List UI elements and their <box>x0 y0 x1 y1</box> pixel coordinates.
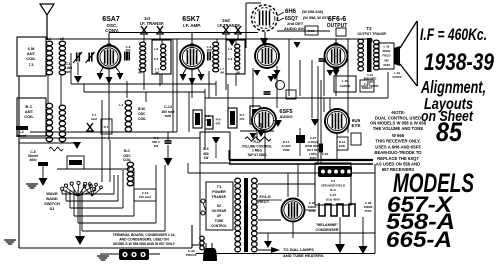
svg-text:TAP AT 884K: TAP AT 884K <box>247 153 267 157</box>
svg-text:CONTROL: CONTROL <box>211 224 227 228</box>
svg-text:460: 460 <box>125 48 130 52</box>
svg-text:6M: 6M <box>236 71 240 75</box>
svg-text:CHOKE: CHOKE <box>340 84 351 88</box>
svg-text:AUDIO: AUDIO <box>280 114 293 119</box>
svg-text:85: 85 <box>436 117 463 147</box>
svg-text:910 mmf: 910 mmf <box>139 195 151 199</box>
svg-text:460v: 460v <box>29 158 36 162</box>
svg-text:L-9: L-9 <box>119 103 124 107</box>
svg-text:SPKR: SPKR <box>383 49 391 53</box>
svg-text:1938-39: 1938-39 <box>424 49 495 76</box>
svg-text:S1: S1 <box>50 206 56 211</box>
svg-text:8MM MFD: 8MM MFD <box>364 77 377 81</box>
svg-text:L-7: L-7 <box>155 67 159 71</box>
svg-text:CONDENSER: CONDENSER <box>316 228 339 232</box>
svg-text:I.F = 460Kc.: I.F = 460Kc. <box>420 25 487 44</box>
svg-text:S2: S2 <box>217 204 221 208</box>
svg-text:250V: 250V <box>364 209 371 213</box>
svg-text:B.W.: B.W. <box>138 107 146 111</box>
svg-text:657 RECEIVERS: 657 RECEIVERS <box>382 167 415 172</box>
svg-text:460: 460 <box>206 48 211 52</box>
svg-text:OF: OF <box>217 214 221 218</box>
svg-text:T1: T1 <box>217 184 222 189</box>
svg-text:COIL: COIL <box>138 117 147 121</box>
svg-text:C-9: C-9 <box>154 57 159 61</box>
svg-text:6M: 6M <box>220 71 224 75</box>
svg-text:OUTPUT TRANSF.: OUTPUT TRANSF. <box>357 32 386 36</box>
svg-text:C-23: C-23 <box>308 29 315 33</box>
svg-text:-NOTE-: -NOTE- <box>391 110 406 115</box>
svg-text:USES A 6H6 AND 6SF5: USES A 6H6 AND 6SF5 <box>375 144 421 149</box>
svg-text:2400: 2400 <box>339 144 346 148</box>
svg-text:ON REAR: ON REAR <box>212 209 227 213</box>
svg-text:AND CONDENSERS, USED ON: AND CONDENSERS, USED ON <box>119 238 169 242</box>
svg-text:mmf: mmf <box>91 117 97 121</box>
svg-text:COIL: COIL <box>24 114 34 119</box>
svg-text:TRANSF.: TRANSF. <box>211 195 226 199</box>
svg-text:1W: 1W <box>204 156 209 160</box>
svg-text:Alignment,: Alignment, <box>420 77 486 97</box>
svg-text:L-7: L-7 <box>138 67 142 71</box>
svg-text:C-27: C-27 <box>330 193 337 197</box>
svg-text:TONE: TONE <box>215 219 224 223</box>
svg-text:47K: 47K <box>239 117 244 121</box>
svg-text:OSC: OSC <box>138 112 146 116</box>
svg-text:I.F. TRANSF.: I.F. TRANSF. <box>140 21 164 26</box>
svg-text:POWER: POWER <box>212 190 226 194</box>
svg-text:AS USED ON 558 AND: AS USED ON 558 AND <box>376 162 420 167</box>
svg-text:mmf: mmf <box>165 114 173 118</box>
svg-text:1/2W: 1/2W <box>282 148 289 152</box>
svg-text:OHM: OHM <box>383 63 390 67</box>
svg-text:6H6: 6H6 <box>285 9 297 15</box>
svg-text:L-8: L-8 <box>154 47 159 51</box>
svg-text:I.F. AMP.: I.F. AMP. <box>183 23 201 28</box>
svg-text:L-16: L-16 <box>342 79 349 83</box>
svg-text:C-18: C-18 <box>367 73 373 77</box>
svg-text:SPEAKER FIELD: SPEAKER FIELD <box>321 184 346 188</box>
svg-text:I.F.TRANSF.: I.F.TRANSF. <box>217 23 240 28</box>
svg-text:6SK7: 6SK7 <box>182 16 200 23</box>
svg-text:30mmf: 30mmf <box>16 134 27 138</box>
svg-text:C-9: C-9 <box>228 57 233 61</box>
svg-text:5-6: 5-6 <box>331 179 336 183</box>
svg-text:TO DIAL LAMPS: TO DIAL LAMPS <box>283 247 314 252</box>
svg-text:AUDIO AVC: AUDIO AVC <box>284 26 306 31</box>
svg-text:PROOF: PROOF <box>186 253 197 257</box>
svg-text:BEAM-DUO-TRIODE TO: BEAM-DUO-TRIODE TO <box>374 150 422 155</box>
svg-text:EYE: EYE <box>351 123 360 128</box>
svg-text:TERMINAL BOARD, CONDENSER # 24: TERMINAL BOARD, CONDENSER # 24, <box>113 233 176 237</box>
svg-text:B.C: B.C <box>124 149 131 153</box>
svg-text:"MELAMINE": "MELAMINE" <box>316 223 339 227</box>
svg-text:VOICE: VOICE <box>392 75 401 79</box>
svg-text:(W 698-646): (W 698-646) <box>302 10 324 14</box>
svg-text:R-9: R-9 <box>203 147 208 151</box>
svg-text:MODELS W 558 /658 AND W 657 ON: MODELS W 558 /658 AND W 657 ONLY <box>113 242 175 246</box>
svg-text:FIELD: FIELD <box>382 54 390 58</box>
svg-text:L-7: L-7 <box>220 67 224 71</box>
svg-text:47K: 47K <box>215 122 220 126</box>
svg-text:B+A: B+A <box>330 188 337 192</box>
svg-text:665-A: 665-A <box>386 227 452 252</box>
svg-text:ON MODELS W 658 & W 668: ON MODELS W 658 & W 668 <box>370 121 427 126</box>
svg-text:T2: T2 <box>366 26 372 31</box>
svg-text:L-8: L-8 <box>228 47 233 51</box>
svg-text:W 665: W 665 <box>392 133 405 138</box>
svg-text:L-7: L-7 <box>236 67 240 71</box>
svg-text:THE VOLUME AND TONE: THE VOLUME AND TONE <box>373 126 423 131</box>
svg-text:1W: 1W <box>154 144 159 148</box>
svg-text:6M: 6M <box>138 71 142 75</box>
svg-text:L-18: L-18 <box>384 45 390 49</box>
svg-text:REPLACE THE 6SQ7: REPLACE THE 6SQ7 <box>377 156 419 161</box>
svg-text:HEAT PROOF: HEAT PROOF <box>361 84 379 88</box>
svg-text:COIL: COIL <box>123 158 132 162</box>
svg-text:(W 558, W 657): (W 558, W 657) <box>303 16 330 20</box>
svg-text:7.3: 7.3 <box>29 63 34 67</box>
svg-text:C-14: C-14 <box>164 105 172 109</box>
svg-text:DUAL CONTROL USED: DUAL CONTROL USED <box>375 115 421 120</box>
svg-text:COIL: COIL <box>26 56 36 61</box>
svg-text:R-1: R-1 <box>104 125 109 129</box>
svg-text:6SA7: 6SA7 <box>102 16 120 23</box>
svg-text:C-25: C-25 <box>322 152 329 156</box>
svg-text:AND TUBE HEATERS: AND TUBE HEATERS <box>283 253 324 258</box>
svg-text:400V: 400V <box>367 80 373 84</box>
svg-text:6F6-6: 6F6-6 <box>328 16 346 23</box>
svg-text:(0.5) 450V: (0.5) 450V <box>326 197 340 201</box>
svg-text:6M: 6M <box>155 71 159 75</box>
svg-text:THIS RECEIVER ONLY,: THIS RECEIVER ONLY, <box>375 139 420 144</box>
svg-text:465: 465 <box>384 58 389 62</box>
